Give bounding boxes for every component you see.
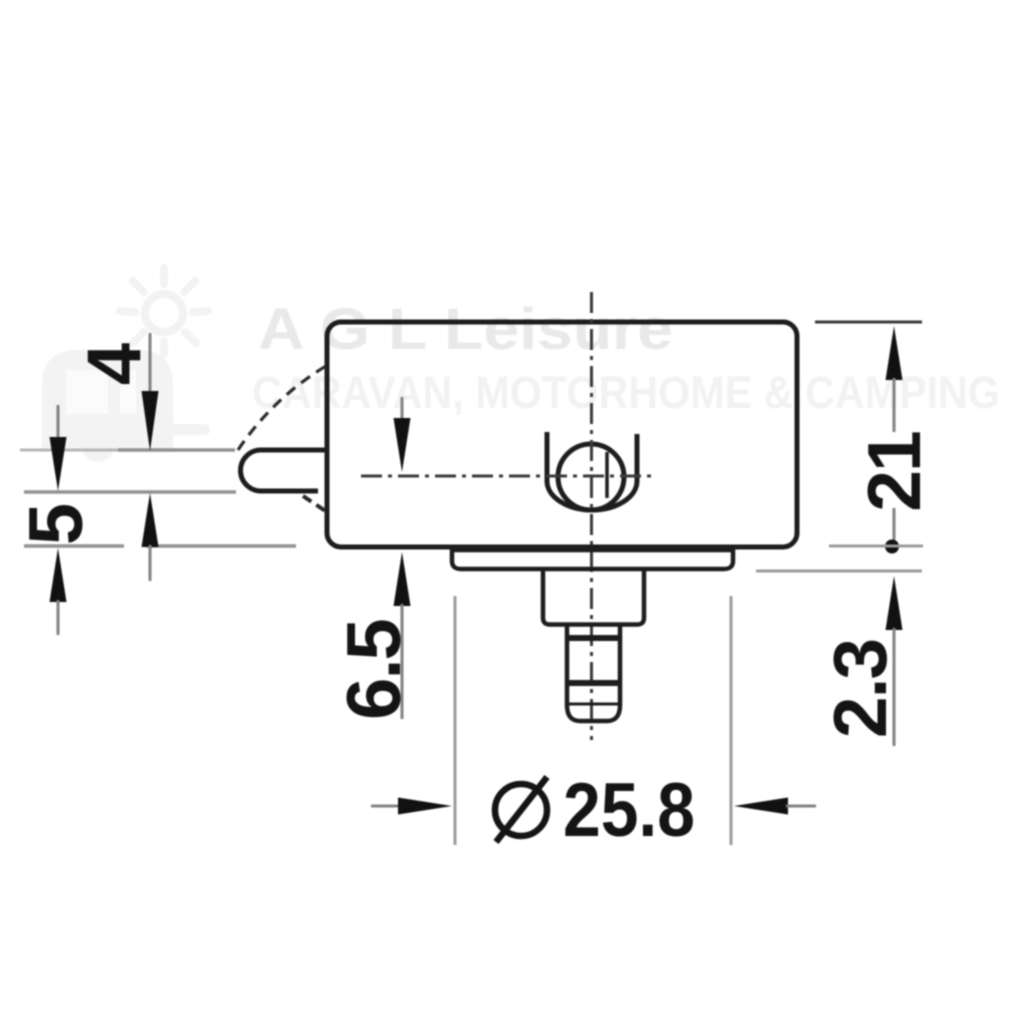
svg-text:A G L Leisure: A G L Leisure bbox=[258, 297, 673, 362]
dia 25.8 right shaft bbox=[786, 805, 816, 808]
thread line 1 bbox=[567, 635, 620, 641]
screw slot line bbox=[605, 452, 609, 498]
hex nut bbox=[543, 570, 644, 625]
dia 25.8 left shaft bbox=[371, 805, 400, 808]
watermark caravan icon bbox=[42, 350, 210, 462]
clamp body bbox=[327, 322, 797, 547]
dim 2.3 extension line bbox=[756, 570, 922, 573]
dim 21 top extension line bbox=[815, 321, 922, 324]
svg-text:4: 4 bbox=[72, 343, 157, 385]
dim 6.5 lower shaft bbox=[401, 604, 404, 719]
svg-text:2.3: 2.3 bbox=[818, 640, 902, 738]
dim 2.3 shaft bbox=[893, 628, 896, 746]
svg-text:21: 21 bbox=[852, 432, 936, 512]
dim 6.5 arrow down bbox=[394, 418, 411, 472]
dia 25.8 left extension line bbox=[454, 596, 457, 845]
dim 21 arrow up bbox=[886, 326, 903, 380]
dim 6.5 upper shaft bbox=[401, 397, 404, 424]
tongue swing arc (dashed) bbox=[238, 366, 326, 450]
threaded stud bbox=[567, 626, 620, 721]
mounting flange bbox=[452, 548, 733, 569]
thread line 2 bbox=[567, 680, 620, 686]
dim 4 shaft bbox=[149, 333, 152, 396]
dim 4 arrow up bbox=[142, 493, 159, 547]
dim 2.3 arrow up bbox=[886, 576, 903, 630]
glass line upper (4-dim top reference) bbox=[20, 449, 118, 452]
latch tongue bbox=[240, 450, 327, 491]
dim 4 lower shaft bbox=[149, 545, 152, 581]
dim 5 lower shaft bbox=[57, 600, 60, 635]
svg-text:5: 5 bbox=[14, 503, 99, 545]
dim 21 lower shaft bbox=[893, 508, 896, 540]
dia 25.8 right extension line bbox=[730, 596, 733, 845]
dim 21 bottom dot bbox=[885, 540, 899, 554]
glass line middle (4/5 shared reference) bbox=[24, 490, 236, 494]
vertical centerline bbox=[590, 292, 593, 740]
dim 5 upper shaft bbox=[57, 405, 60, 442]
dim 5 arrow up bbox=[50, 548, 67, 602]
screw head circle bbox=[558, 444, 624, 510]
tongue hidden edge (dashed) bbox=[303, 496, 327, 512]
U bracket inside body bbox=[547, 432, 637, 510]
dim 5 arrow down bbox=[50, 437, 67, 491]
watermark sun logo bbox=[120, 268, 208, 354]
dim 21 upper shaft bbox=[893, 378, 896, 432]
thread line 3 (chamfer) bbox=[569, 703, 618, 706]
flange top line bbox=[452, 549, 733, 553]
svg-text:6.5: 6.5 bbox=[332, 619, 417, 719]
horizontal centerline bbox=[361, 475, 652, 478]
dim 6.5 arrow up bbox=[394, 552, 411, 606]
svg-text:25.8: 25.8 bbox=[563, 768, 695, 853]
dim 21 bottom extension line bbox=[829, 545, 923, 548]
glass line lower segment A (5-dim bottom reference) bbox=[24, 544, 124, 548]
glass line lower segment B bbox=[146, 544, 296, 548]
dia 25.8 label diameter symbol bbox=[495, 784, 547, 836]
dia 25.8 right arrow bbox=[734, 798, 788, 815]
dia 25.8 left arrow bbox=[398, 798, 452, 815]
dim 4 arrow down bbox=[142, 391, 159, 451]
